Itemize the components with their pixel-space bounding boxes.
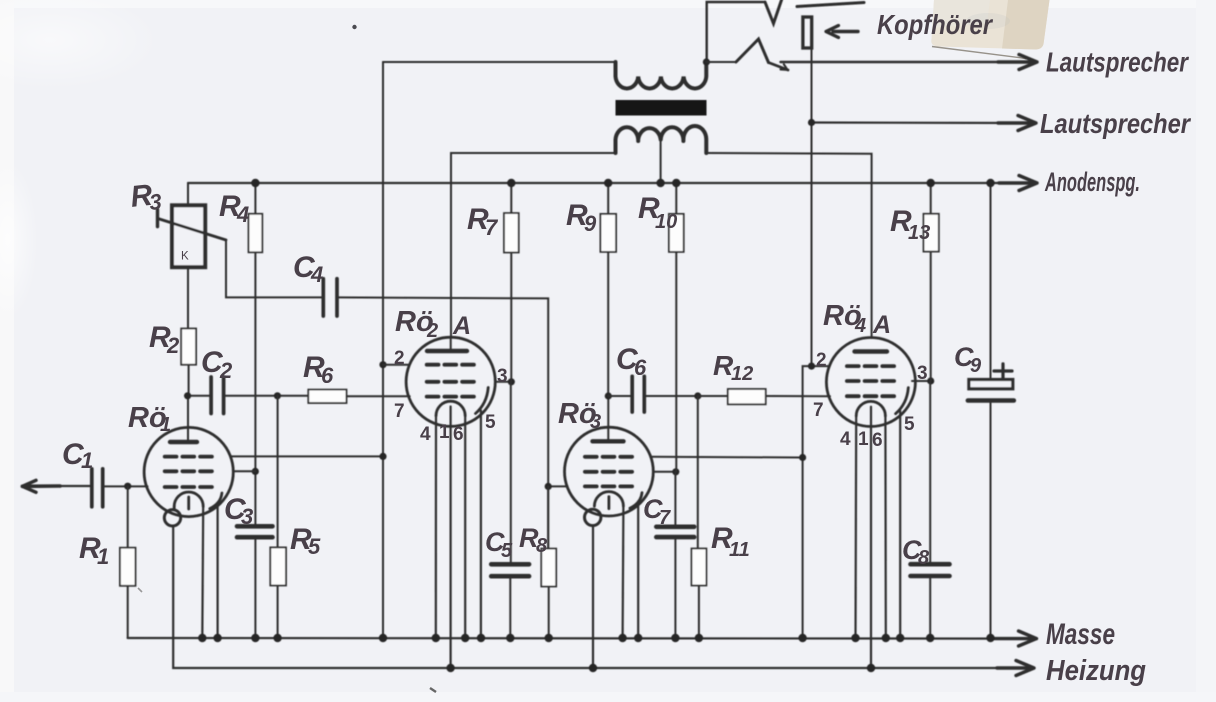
node: Masse bus x=675.4 [671, 634, 679, 642]
node: Masse bus x=638.2 [634, 634, 642, 642]
wire: C3 bottom to Masse [254, 537, 256, 638]
svg-text:2: 2 [394, 348, 405, 369]
resistor R10 body [669, 214, 684, 252]
wire: secondary left end down to Rö2 anode [451, 153, 616, 338]
wire: Rö1 row2 to C3 line [233, 470, 255, 472]
resistor R2 lead [188, 365, 190, 396]
node: Masse bus x=990.5 [986, 634, 994, 642]
wire: Rö1 row1 to x383 bus [230, 455, 383, 457]
svg-text:13: 13 [908, 222, 930, 244]
svg-text:12: 12 [731, 363, 753, 385]
wire: C2 to R6 [224, 395, 309, 397]
node: pin2 branch / Masse [798, 634, 806, 642]
Rö1 cathode hook [210, 493, 222, 509]
wire: C5 bottom to Masse [509, 576, 511, 638]
node: Masse bus x=255.4 [251, 634, 259, 642]
node: Masse bus x=481 [477, 634, 485, 642]
Rö3 pin line (dome right) to Masse [621, 506, 624, 638]
svg-text:4: 4 [236, 202, 249, 227]
potentiometer R3 leads [187, 183, 189, 329]
wire: Rö4 pin2 branch [803, 366, 830, 638]
svg-text:10: 10 [655, 211, 677, 233]
node: anode bus / C9 [986, 179, 994, 187]
C9 plus sign [994, 364, 1012, 378]
wire: Rö4 pin3 to R13 line [912, 380, 931, 382]
tape edge line [932, 47, 1026, 59]
wire: junction to speaker switch [706, 61, 736, 63]
wire: C4 right to R8 via Rö3 grid [337, 297, 548, 548]
Rö3 heater pin inside dome [608, 497, 611, 509]
Masse bus with arrow [128, 637, 1018, 640]
resistor R4 leads [254, 183, 256, 526]
capacitor C4 plates [323, 279, 337, 316]
node: Masse bus x=465.2 [461, 634, 469, 642]
Rö4 cathode hook [896, 388, 909, 414]
svg-text:9: 9 [584, 211, 597, 236]
svg-text:8: 8 [918, 547, 930, 569]
capacitor C9 top plate (box) [969, 380, 1013, 389]
wire: R8 top to Rö3 grid node [547, 486, 550, 638]
Rö1 grid rows (dashed) [165, 455, 212, 459]
wire: top bus from junction to headphone switch [707, 2, 765, 62]
wire: Rö3 row2 to R10 line [653, 471, 676, 473]
node: Masse bus x=885.8 [882, 634, 890, 642]
capacitor C9 bottom plate [968, 398, 1014, 403]
svg-text:6: 6 [453, 424, 464, 445]
wire: long horizontal to transformer primary (y=62) [383, 61, 616, 63]
resistor R9 body [600, 214, 616, 252]
Rö3 cathode hook [630, 493, 642, 509]
transformer Tr1 secondary winding [616, 126, 707, 153]
capacitor C9 leads [990, 183, 992, 638]
svg-text:2: 2 [166, 333, 180, 358]
pin number labels [394, 348, 928, 451]
wire: R6 to Rö2 pin7 [347, 395, 410, 397]
pentode Rö4 envelope [826, 338, 915, 427]
wire: wiper to C4 [226, 240, 323, 297]
wire: top bus right segment [797, 3, 864, 7]
wire: C1 to Rö1 grid [103, 485, 148, 487]
node: row2 / R10/C7 [672, 468, 679, 475]
node: anode bus / R13 [927, 179, 935, 187]
node: Masse bus x=855.5 [851, 634, 859, 642]
paper specks [352, 25, 356, 29]
Rö4 cathode dome [856, 401, 885, 416]
node: Masse bus x=900.2 [896, 634, 904, 642]
wire: Rö3 row1 to Rö4 grid branch [651, 456, 803, 459]
potentiometer R3 wiper [156, 210, 159, 227]
Rö3 cathode dome [594, 492, 623, 506]
node: Masse bus x=622.6 [618, 634, 626, 642]
svg-text:7: 7 [485, 215, 499, 240]
node: row3 / R8 line [545, 483, 552, 490]
node: screen grid Rö1 / C3R4 line [252, 468, 259, 475]
node: Masse bus x=510.3 [506, 634, 514, 642]
handwritten labels [62, 178, 982, 569]
svg-text:3: 3 [917, 363, 928, 384]
svg-text:1: 1 [160, 414, 171, 436]
wire: Rö2 pin2 to x383 [383, 364, 410, 366]
svg-text:A: A [872, 311, 891, 339]
Rö3 anode bar and lead [593, 439, 624, 443]
Heizung bus with arrow [173, 526, 1016, 668]
wire: secondary center tap to anode bus [660, 140, 662, 184]
node: pin2 branch / Rö3 row1 wire [799, 454, 806, 461]
capacitor C3 plates [237, 526, 273, 537]
Rö2 cathode dome [436, 401, 465, 416]
svg-text:1: 1 [858, 429, 869, 450]
node: transformer primary / top bus junction [703, 58, 710, 65]
Rö2 pin1 heater line [450, 407, 452, 669]
Rö1 heater pin inside dome [187, 497, 190, 509]
svg-text:6: 6 [634, 355, 647, 380]
svg-text:5: 5 [308, 534, 321, 559]
node: Heizung bus x=450.6 [446, 664, 454, 672]
svg-text:A: A [452, 312, 471, 340]
capacitor C1 plates [92, 469, 103, 507]
svg-text:11: 11 [729, 539, 750, 561]
svg-text:9: 9 [970, 355, 982, 377]
node: R2 / C2 / anode Rö1 [184, 392, 191, 399]
svg-text:Lautsprecher: Lautsprecher [1040, 108, 1192, 139]
resistor R6 body [308, 390, 346, 403]
Rö4 pin5 line [899, 411, 901, 638]
svg-text:5: 5 [501, 540, 513, 562]
svg-text:4: 4 [420, 424, 431, 445]
resistor R9 leads [607, 183, 609, 396]
resistor R11 body [692, 549, 707, 586]
resistor R12 body [728, 389, 766, 404]
wire: Rö3 row3 to R8 line [548, 485, 567, 487]
node: anode bus / R4 [251, 179, 259, 187]
Rö1 anode bar [170, 440, 197, 444]
Anodenspg. bus with arrow [188, 182, 1018, 184]
Rö2 cathode hook [476, 388, 489, 414]
Rö3 hook pin to Masse [637, 505, 639, 638]
switch S1b (speaker contact) [736, 39, 769, 63]
svg-text:7: 7 [659, 507, 671, 529]
node: x383 / Masse [379, 634, 387, 642]
node: Masse bus x=202.3 [198, 634, 206, 642]
node: Heizung bus x=593 [589, 664, 597, 672]
wire: Lautsprecher 2 line with arrow [812, 121, 1018, 124]
node: R9 / C6 / Rö3 anode [605, 392, 612, 399]
svg-text:4: 4 [310, 262, 323, 287]
resistor R8 body [541, 549, 556, 587]
Rö1 hook pin to Masse [217, 506, 219, 639]
Rö1 cathode terminal circle [164, 510, 180, 526]
resistor R13 leads [929, 183, 932, 638]
wire: jack down to Rö4 grid [811, 48, 813, 366]
svg-text:3: 3 [148, 189, 163, 215]
wire: R11 leads [698, 396, 699, 638]
Rö2 pin6 line [464, 416, 466, 638]
Rö3 cathode terminal circle [585, 509, 601, 525]
node: Masse bus x=548.7 [545, 634, 553, 642]
svg-text:5: 5 [485, 412, 496, 433]
wire: C2 node / Rö1 anode [187, 396, 211, 442]
svg-text:4: 4 [854, 315, 866, 337]
Rö3 grid rows (dashed) [585, 455, 632, 459]
node: pin3 / R13 / C8 [927, 377, 934, 384]
capacitor C5 plates [491, 564, 529, 576]
capacitor C6 wires [608, 395, 698, 397]
svg-text:Lautsprecher: Lautsprecher [1046, 47, 1190, 78]
Rö2 grid rows (dashed) [427, 363, 474, 367]
svg-text:2: 2 [426, 320, 438, 342]
node: anode bus / R9 [604, 179, 612, 187]
Rö4 pin4 line [854, 416, 857, 638]
resistor R1 body [120, 548, 136, 586]
svg-text:Masse: Masse [1046, 618, 1115, 651]
node: C2 / R6 / R5 [274, 392, 281, 399]
svg-text:Kopfhörer: Kopfhörer [877, 9, 994, 40]
node: anode bus / center tap [656, 179, 664, 187]
wire: C7 leads [674, 472, 676, 638]
svg-text:3: 3 [497, 366, 508, 387]
resistor R4 body [249, 214, 263, 253]
resistor R7 body [504, 213, 519, 252]
wire: Lautsprecher 1 line with arrow [781, 61, 1019, 63]
svg-text:3: 3 [590, 411, 601, 433]
node: Masse bus x=930.2 [926, 634, 934, 642]
Rö4 pin6 line [884, 416, 887, 638]
resistor R7 leads [510, 183, 513, 564]
svg-text:3: 3 [241, 504, 253, 529]
svg-text:6: 6 [872, 430, 883, 451]
node: pin3 / R7 [508, 378, 515, 385]
Rö1 pin line (dome right) to Masse [201, 507, 204, 639]
svg-text:7: 7 [394, 401, 405, 422]
node: Masse bus x=435.8 [432, 634, 440, 642]
terminal name labels [877, 9, 1192, 687]
transformer Tr1 primary winding [616, 62, 707, 88]
wire: Rö2 pin3 to R7 line [495, 381, 511, 383]
node: anode bus / R10 [672, 179, 680, 187]
svg-text:6: 6 [321, 363, 334, 388]
label R3 [129, 178, 163, 217]
node: row1 / x383 [379, 453, 386, 460]
node: Masse bus x=698.9 [695, 634, 703, 642]
tape patch top right [931, 0, 1049, 50]
potentiometer R3 body [172, 205, 205, 267]
triode Rö1 envelope [144, 427, 233, 516]
svg-text:1: 1 [439, 422, 450, 443]
svg-text:K: K [181, 251, 189, 263]
node: C6 / R12 / R11 [694, 392, 701, 399]
node: C1 / R1 / grid Rö1 [124, 483, 131, 490]
svg-text:5: 5 [904, 414, 915, 435]
switch S1a (V break contact, top) [765, 0, 782, 24]
svg-text:1: 1 [81, 448, 93, 473]
node: Rö2 pin2 / x383 [379, 361, 386, 368]
headphone jack symbol [803, 17, 812, 48]
Rö2 anode bar and lead [427, 349, 467, 353]
capacitor C6 plates [632, 376, 644, 412]
triode Rö3 envelope [565, 427, 654, 516]
Rö2 pin4 line [435, 416, 437, 638]
capacitor C7 plates [656, 527, 694, 537]
Rö2 pin5 line [480, 411, 482, 639]
svg-text:2: 2 [219, 358, 233, 383]
svg-text:4: 4 [840, 429, 851, 450]
input arrow [22, 484, 60, 488]
pentode Rö2 envelope [406, 337, 495, 426]
Rö4 anode bar [855, 349, 888, 353]
Rö4 grid rows (dashed) [847, 364, 894, 368]
resistor R2 body [181, 329, 196, 365]
svg-text:Anodenspg.: Anodenspg. [1044, 167, 1140, 197]
svg-text:2: 2 [816, 350, 827, 371]
node: Masse bus x=277.6 [273, 634, 281, 642]
Rö4 pin1 heater line [870, 407, 872, 668]
svg-text:8: 8 [536, 535, 548, 557]
svg-text:1: 1 [97, 544, 109, 569]
node: Masse bus x=217.6 [213, 634, 221, 642]
svg-text:Heizung: Heizung [1046, 655, 1146, 687]
resistor R5 body [270, 547, 286, 585]
Rö1 cathode dome [174, 492, 203, 507]
node: jack line / Lautsprecher 2 [808, 119, 815, 126]
wire: Rö3 terminal to Heizung [592, 526, 594, 668]
node: Heizung bus x=871 [867, 664, 875, 672]
node: pin2 / jack line [808, 363, 815, 370]
node: anode bus / R7 [507, 179, 515, 187]
wire: secondary right end to Rö4 anode [706, 153, 871, 338]
capacitor C2 plates [211, 377, 224, 414]
capacitor C8 plates [911, 564, 950, 576]
wire: Rö1 terminal wall stub [173, 507, 176, 510]
resistor R10 leads [675, 183, 677, 472]
wire: R1 leads [127, 486, 129, 638]
wire: R12 wires [698, 395, 830, 397]
resistor R13 body [924, 214, 939, 252]
wire: long vertical bus x=383 [382, 62, 384, 638]
transformer Tr1 core [616, 100, 707, 116]
svg-text:7: 7 [813, 400, 824, 421]
wire: R5 lead down [277, 396, 279, 638]
arrow to Kopfhörer label [833, 30, 858, 33]
